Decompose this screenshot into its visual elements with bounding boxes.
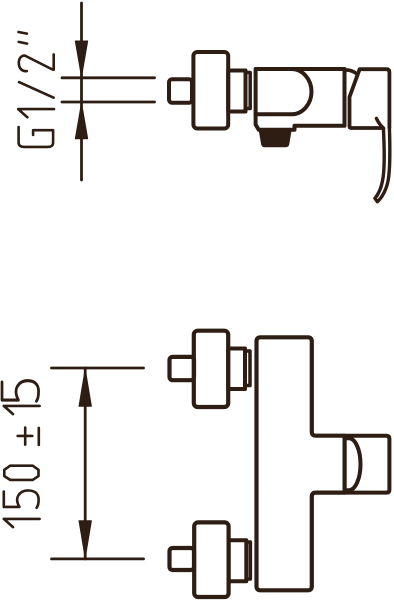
label 150 +-15 (rotated) <box>2 381 40 527</box>
step piece 2 (side view) <box>246 73 251 109</box>
wall flange (bottom connection, front view) <box>194 522 228 597</box>
handle dome arc (front view) <box>345 438 361 490</box>
step piece 1 (side view) <box>228 71 245 112</box>
dimension line 150 (vertical) <box>84 368 87 559</box>
step piece 1 (bottom connection, front view) <box>229 540 247 581</box>
handle escutcheon wedge arc (side view) <box>345 70 358 74</box>
body (front view) with handle collar cutout <box>257 337 345 590</box>
extension line (upper, G1/2 top) <box>62 76 155 79</box>
label G1/2" (rotated) <box>18 32 54 147</box>
extension line (lower, G1/2 bottom) <box>62 101 155 104</box>
arrowhead down (G1/2) <box>75 41 87 77</box>
nut (top connection, front view) <box>170 357 195 380</box>
arrowhead up (150) <box>79 369 91 406</box>
body outline (side view) <box>256 69 345 130</box>
arrowhead down (150) <box>79 521 91 558</box>
step piece 2 (bottom connection, front view) <box>246 542 250 579</box>
shower outlet (filled, side view) <box>260 131 290 146</box>
handle escutcheon (side view) <box>350 69 390 128</box>
nut (bottom connection, front view) <box>170 548 195 570</box>
lever hook (top of lever, side view) <box>376 118 383 128</box>
extension line (upper, 150 top) <box>52 367 144 370</box>
cartridge dome (interior detail, side view) <box>256 69 312 114</box>
dimension line G1/2 (vertical) <box>80 3 83 180</box>
handle block (front view) <box>345 436 390 493</box>
step piece 1 (top connection, front view) <box>228 349 245 390</box>
extension line (lower, 150 bottom) <box>52 558 144 561</box>
wall flange (escutcheon, side view) <box>193 52 228 129</box>
step piece 2 (top connection, front view) <box>245 351 250 386</box>
lever tail (side view) <box>375 127 390 201</box>
nut (G1/2 thread, side view) <box>169 79 192 102</box>
arrowhead up (G1/2) <box>75 103 87 139</box>
wall flange (top connection, front view) <box>194 331 228 407</box>
